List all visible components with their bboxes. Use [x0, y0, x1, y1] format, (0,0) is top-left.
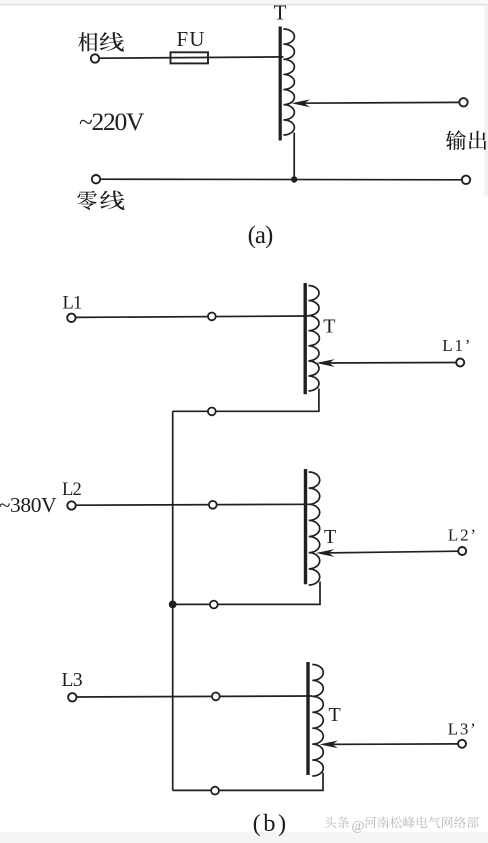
- svg-text:L1: L1: [63, 294, 83, 314]
- svg-text:@: @: [352, 819, 365, 834]
- svg-text:~220V: ~220V: [79, 107, 145, 136]
- svg-text:FU: FU: [177, 28, 206, 51]
- svg-text:T: T: [274, 1, 287, 25]
- svg-text:L3’: L3’: [448, 720, 478, 739]
- svg-text:L2: L2: [62, 480, 82, 500]
- svg-text:(b): (b): [253, 810, 289, 837]
- svg-text:T: T: [323, 315, 335, 337]
- svg-text:~380V: ~380V: [0, 493, 57, 517]
- svg-text:T: T: [324, 526, 336, 548]
- svg-text:L1’: L1’: [442, 336, 472, 355]
- svg-text:T: T: [329, 704, 341, 726]
- svg-text:(a): (a): [248, 222, 273, 249]
- svg-text:L3: L3: [62, 670, 83, 691]
- svg-text:L2’: L2’: [448, 525, 478, 544]
